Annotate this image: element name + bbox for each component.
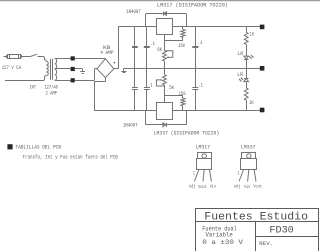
svg-text:1N4007: 1N4007 (126, 9, 141, 15)
svg-text:1: 1 (238, 171, 240, 177)
svg-text:5K: 5K (157, 47, 162, 53)
svg-text:0 a ±30 V: 0 a ±30 V (202, 239, 243, 246)
svg-text:1: 1 (193, 171, 195, 177)
svg-text:150: 150 (179, 91, 186, 97)
svg-text:2 AMP: 2 AMP (46, 91, 57, 97)
svg-text:1K: 1K (249, 100, 254, 106)
svg-text:Variable: Variable (206, 232, 233, 239)
svg-text:.1: .1 (148, 82, 153, 88)
svg-text:.1: .1 (150, 41, 155, 47)
svg-text:4 AMP: 4 AMP (100, 50, 113, 56)
svg-text:Vin: Vin (210, 184, 216, 190)
svg-text:Fuentes Estudio: Fuentes Estudio (204, 212, 308, 224)
svg-text:Adj: Adj (234, 184, 241, 190)
svg-text:1K: 1K (250, 32, 255, 38)
svg-text:LR: LR (237, 72, 243, 78)
svg-text:Adj: Adj (189, 184, 196, 190)
svg-text:LM317 (DISIPADOR TO220): LM317 (DISIPADOR TO220) (157, 2, 228, 8)
svg-text:LR: LR (237, 51, 243, 57)
svg-text:127 V CA: 127 V CA (2, 65, 21, 71)
svg-text:REV.: REV. (259, 240, 273, 247)
svg-text:5K: 5K (169, 85, 174, 91)
svg-text:LM337: LM337 (241, 145, 256, 151)
svg-text:Vout: Vout (253, 184, 262, 190)
svg-text:Vout: Vout (198, 184, 207, 190)
svg-text:Vin: Vin (244, 184, 250, 190)
svg-text:INT: INT (30, 85, 37, 91)
svg-text:LM337 (DISIPADOR TO220): LM337 (DISIPADOR TO220) (154, 131, 220, 137)
svg-text:1N4007: 1N4007 (123, 123, 138, 129)
svg-text:.1: .1 (198, 40, 203, 46)
svg-text:Transfo, Int y Fus estan fuera: Transfo, Int y Fus estan fuera del PCB (23, 155, 118, 161)
svg-text:150: 150 (178, 43, 185, 49)
svg-text:.1: .1 (198, 82, 203, 88)
svg-text:TABLILLAS DEL PCB: TABLILLAS DEL PCB (16, 145, 62, 151)
svg-text:FD30: FD30 (269, 226, 293, 237)
svg-text:LM317: LM317 (196, 145, 211, 151)
